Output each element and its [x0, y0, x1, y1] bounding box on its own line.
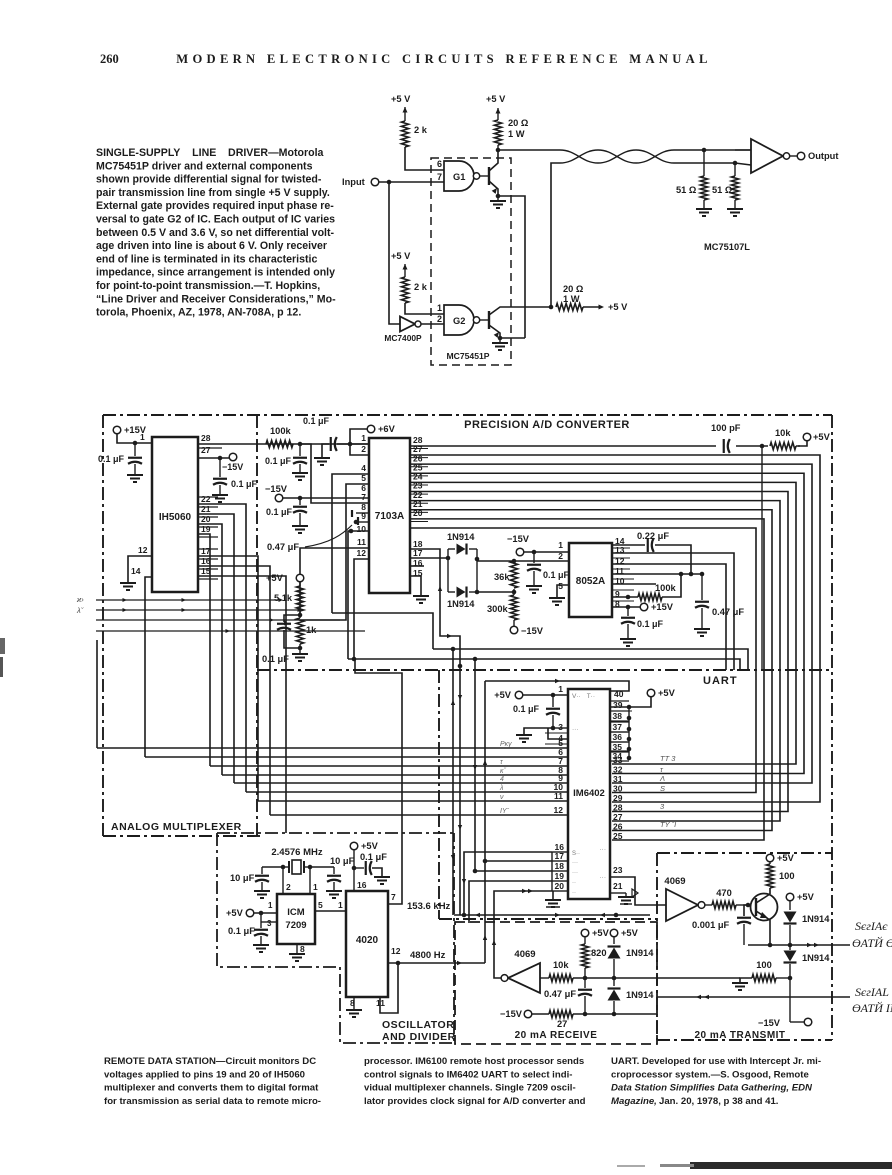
ground cap pin27	[212, 494, 228, 496]
resistor 470	[705, 904, 712, 906]
IC IM6402	[568, 689, 610, 899]
svg-text:−15V: −15V	[758, 1018, 781, 1028]
wire inverter to G2 pin2	[421, 323, 444, 325]
bus wire 7103A pin 26 to UART	[410, 464, 812, 783]
crystal nodes	[281, 865, 286, 870]
+15V terminal 8052A	[612, 606, 640, 608]
pin separators 22-19	[198, 496, 218, 498]
ground 7103A pin15	[410, 576, 421, 595]
node clock	[760, 444, 765, 449]
svg-text:3: 3	[558, 722, 563, 732]
svg-text:30: 30	[613, 784, 623, 794]
svg-text:ӨΑΤЙ IΝ: ӨΑΤЙ IΝ	[852, 1000, 892, 1015]
svg-text:32: 32	[613, 765, 623, 775]
wire 7103A pin28 clock line	[410, 445, 800, 447]
svg-text:28: 28	[201, 433, 211, 443]
svg-text:4069: 4069	[664, 876, 685, 887]
svg-text:SINGLE-SUPPLY LINE DRIVE: SINGLE-SUPPLY LINE DRIVER—Motorola	[96, 147, 324, 159]
svg-text:PRECISION A/D CONVERTER: PRECISION A/D CONVERTER	[464, 419, 630, 431]
svg-text:1: 1	[313, 882, 318, 892]
svg-text:0.1 μF: 0.1 μF	[303, 416, 330, 426]
svg-text:10 μF: 10 μF	[230, 873, 255, 883]
svg-text:3: 3	[267, 919, 272, 928]
wire pin16 bus	[198, 566, 270, 815]
wire 7103A pin18 route	[410, 549, 460, 915]
wire pair bottom to receiver	[735, 163, 751, 165]
+5V terminal diode tx	[786, 893, 794, 901]
svg-text:torola, Phoenix, AZ, 1978, AN-: torola, Phoenix, AZ, 1978, AN-708A, p 12…	[96, 307, 301, 319]
svg-text:37: 37	[613, 722, 623, 732]
svg-text:8052A: 8052A	[576, 576, 605, 587]
capacitor 0.1uF +6V	[330, 437, 332, 451]
svg-text:lator provides clock signal fo: lator provides clock signal for A/D conv…	[364, 1096, 586, 1107]
serial data in line	[657, 996, 850, 998]
wire pin4 route	[332, 474, 369, 613]
svg-text:21: 21	[201, 504, 211, 514]
svg-text:26: 26	[613, 822, 623, 832]
wire bus line to uart pin 8	[222, 774, 568, 776]
wire pin11 to ref	[300, 548, 369, 615]
svg-text:100 pF: 100 pF	[711, 423, 741, 433]
bus wire 7103A pin 23 to UART	[410, 492, 788, 812]
svg-text:··: ··	[572, 880, 576, 886]
bus wire 8052A pin12	[612, 564, 726, 670]
-15V terminal pin27	[229, 453, 237, 461]
svg-text:1N914: 1N914	[802, 953, 830, 963]
svg-text:0.1 μF: 0.1 μF	[265, 456, 292, 466]
dashed border transmit left	[656, 853, 658, 1040]
wire branch down 475	[474, 659, 476, 871]
svg-text:1N914: 1N914	[447, 599, 475, 609]
ground 51ohm right	[734, 200, 736, 208]
dashed box MC75451P	[431, 158, 511, 365]
wire 2k to G2 pin1	[405, 303, 444, 314]
node 51ohm left	[702, 148, 707, 153]
svg-text:7: 7	[361, 492, 366, 502]
svg-text:+5 V: +5 V	[608, 302, 628, 312]
bus wire 7103A pin 24 to UART	[410, 482, 796, 764]
pin separator lines 8052A	[612, 547, 630, 549]
diode 1N914 upper	[448, 548, 455, 550]
svg-text:Data Station Simplifies Data G: Data Station Simplifies Data Gathering, …	[611, 1083, 813, 1094]
svg-text:κˇ: κˇ	[500, 768, 507, 775]
bus wire 8052A pin13	[612, 553, 734, 670]
inverter MC7400P	[400, 317, 415, 332]
wire 2k to G1 pin6	[405, 147, 444, 170]
svg-text:0.1 μF: 0.1 μF	[266, 507, 293, 517]
svg-text:vidual multiplexer channels. S: vidual multiplexer channels. Single 7209…	[364, 1083, 576, 1094]
svg-text:1N914: 1N914	[626, 990, 654, 1000]
resistor 100k	[266, 440, 293, 447]
analog input line 1	[96, 599, 279, 601]
svg-text:470: 470	[716, 888, 732, 898]
wire uart pin20 to receive	[494, 891, 552, 978]
ground Q1 emitter	[496, 194, 501, 199]
svg-text:end of line is terminated in i: end of line is terminated in its charact…	[96, 253, 317, 265]
svg-text:7103A: 7103A	[375, 511, 404, 522]
svg-text:20 Ω: 20 Ω	[508, 118, 529, 128]
wire IH pin28 to 7103A pin1	[198, 443, 369, 445]
ground +6V cap	[322, 444, 329, 457]
node 1k bottom	[298, 646, 303, 651]
svg-text:···: ···	[572, 870, 578, 876]
margin mark 2	[0, 657, 3, 677]
resistor 300k	[513, 589, 515, 595]
svg-text:12: 12	[554, 805, 564, 815]
resistor 5.1k	[299, 582, 301, 586]
node ref	[298, 613, 303, 618]
+5V terminal uart right	[647, 689, 655, 697]
wire crystal to pin2	[282, 867, 284, 894]
wire 7103A pin2	[350, 444, 369, 455]
svg-text:36: 36	[613, 732, 623, 742]
capacitor 0.1uF pin27	[219, 458, 221, 477]
+5V terminal collector	[769, 862, 771, 864]
+5V terminal clock	[796, 441, 807, 446]
ground uart right	[625, 893, 627, 896]
resistor 820	[584, 937, 586, 944]
svg-text:···: ···	[600, 846, 607, 853]
wire uart pin19	[469, 881, 552, 923]
svg-text:1N914: 1N914	[802, 914, 830, 924]
svg-text:−15V: −15V	[507, 534, 530, 544]
svg-text:0.22 μF: 0.22 μF	[637, 531, 669, 541]
svg-text:−15V: −15V	[521, 626, 544, 636]
svg-text:MC75451P driver and external c: MC75451P driver and external components	[96, 160, 313, 172]
svg-text:SєгIΑL: SєгIΑL	[855, 985, 889, 999]
svg-text:processor. IM6100 remote host: processor. IM6100 remote host processor …	[364, 1056, 584, 1067]
ground 51ohm left	[703, 200, 705, 208]
svg-text:V··: V··	[572, 693, 581, 700]
svg-text:IH5060: IH5060	[159, 512, 192, 523]
svg-text:2: 2	[558, 551, 563, 561]
svg-text:“Line Driver and Receiver Cons: “Line Driver and Receiver Considerations…	[96, 293, 336, 305]
wire input to inverter	[389, 182, 400, 324]
svg-text:23: 23	[613, 865, 623, 875]
resistor 20ohm 1W upper	[494, 120, 501, 145]
svg-text:12: 12	[138, 545, 148, 555]
svg-text:0.47 μF: 0.47 μF	[267, 542, 299, 552]
svg-text:+5V: +5V	[266, 573, 284, 583]
svg-text:impedance, since arrangement i: impedance, since arrangement is intended…	[96, 267, 335, 279]
analog input line 2	[96, 609, 298, 611]
svg-text:28: 28	[613, 803, 623, 813]
resistor 51ohm right	[734, 163, 736, 176]
svg-text:0.1 μF: 0.1 μF	[262, 654, 289, 664]
wire +5V to 4020 pin16	[353, 850, 355, 891]
svg-text:20 mA TRANSMIT: 20 mA TRANSMIT	[694, 1030, 785, 1041]
svg-text:0.1 μF: 0.1 μF	[231, 479, 258, 489]
wire pin21 bus	[198, 514, 234, 783]
svg-text:10 μF: 10 μF	[330, 856, 355, 866]
svg-text:−15V: −15V	[222, 462, 243, 472]
wire node to transmit	[614, 977, 740, 979]
wire uart pin25	[611, 845, 613, 847]
svg-text:0.1 μF: 0.1 μF	[637, 619, 664, 629]
wire pin15 stub	[198, 576, 286, 833]
svg-text:shown provide differential sig: shown provide differential signal for tw…	[96, 174, 322, 186]
svg-text:1: 1	[437, 303, 442, 313]
svg-text:···: ···	[600, 874, 607, 881]
wire bus line to uart pin 9	[234, 782, 568, 784]
pin separator lines right	[410, 448, 428, 450]
svg-text:0.1 μF: 0.1 μF	[228, 926, 255, 936]
svg-text:versal to gate G2 of IC. Each: versal to gate G2 of IC. Each output of …	[96, 214, 335, 226]
dashed border transmit top	[657, 852, 832, 854]
transistor Q1	[488, 167, 490, 185]
svg-text:ICM: ICM	[287, 907, 305, 918]
svg-text:5.1k: 5.1k	[274, 593, 293, 603]
svg-text:··: ··	[572, 890, 576, 896]
resistor 10k receive	[540, 977, 549, 979]
wire pin12 ground	[128, 556, 152, 582]
wire crystal to pin1	[309, 867, 311, 894]
svg-text:ΤΥ ˉΙ: ΤΥ ˉΙ	[660, 820, 676, 829]
wire bus line to uart pin 12	[270, 814, 568, 816]
svg-text:Input: Input	[342, 177, 365, 187]
gate G2	[444, 305, 474, 335]
node 100k cap	[298, 442, 303, 447]
resistor 1k	[299, 611, 301, 618]
svg-text:0.1 μF: 0.1 μF	[543, 570, 570, 580]
svg-text:1: 1	[558, 540, 563, 550]
analog input line 3	[96, 619, 340, 621]
svg-text:λ: λ	[499, 785, 504, 792]
ground 1k	[299, 648, 301, 653]
resistor 100 emitter	[752, 974, 776, 981]
svg-text:MC75451P: MC75451P	[447, 351, 490, 361]
wire bus line to uart pin 11	[258, 800, 568, 802]
svg-text:0.1 μF: 0.1 μF	[360, 852, 387, 862]
svg-text:−15V: −15V	[500, 1009, 523, 1019]
ground cap pin1	[127, 474, 143, 476]
-15V terminal 300k	[513, 620, 515, 626]
svg-text:1: 1	[140, 432, 145, 442]
diode rail right	[476, 549, 478, 592]
svg-text:ν: ν	[500, 794, 504, 801]
diode 1N914 receive lower	[613, 978, 615, 986]
wire +15V to pin1	[117, 434, 152, 443]
wire G2 out to Q2 base	[480, 319, 489, 321]
svg-text:G1: G1	[453, 172, 465, 182]
svg-text:+5V: +5V	[621, 928, 639, 938]
resistor 2k lower	[401, 277, 408, 303]
svg-text:20 mA RECEIVE: 20 mA RECEIVE	[515, 1030, 598, 1041]
svg-text:12: 12	[357, 548, 367, 558]
svg-text:7: 7	[391, 892, 396, 902]
+5V terminal uart	[515, 691, 523, 699]
wire serial line arrows	[454, 914, 650, 916]
diode 1N914 lower	[448, 591, 455, 593]
wire RC node down to pin7	[300, 444, 369, 503]
wire diode to -15V	[789, 978, 791, 1022]
svg-text:λˇ: λˇ	[76, 606, 84, 615]
dashed border top	[103, 414, 832, 416]
wire bus line to uart pin 7	[210, 765, 568, 767]
bus wire 7103A pin 19 to UART	[410, 528, 756, 793]
svg-text:260: 260	[100, 52, 119, 66]
gate G1	[444, 161, 474, 191]
output terminal	[790, 155, 797, 157]
svg-text:16: 16	[357, 880, 367, 890]
wire pin8 y613 line	[332, 613, 433, 649]
bus wire 7103A pin 20 to UART	[410, 519, 764, 840]
dashed border receive box	[455, 922, 657, 1044]
svg-text:2 k: 2 k	[414, 125, 428, 135]
svg-text:age driven into line is about: age driven into line is about 6 V. Only …	[96, 240, 327, 252]
svg-text:Magazine,: Magazine,	[611, 1096, 657, 1107]
wire pin20 bus	[198, 524, 222, 775]
svg-text:27: 27	[613, 812, 623, 822]
capacitor 0.1uF ref	[284, 615, 300, 622]
pin separators 17-15	[198, 548, 218, 550]
dashed border mux bottom	[103, 835, 262, 837]
svg-text:ΙΥˉ΢: ΙΥˉ΢	[500, 808, 510, 815]
resistor 36k	[510, 561, 517, 588]
svg-text:G2: G2	[453, 316, 465, 326]
svg-text:SєгIΑє: SєгIΑє	[855, 919, 888, 933]
svg-text:+15V: +15V	[651, 602, 674, 612]
svg-text:2: 2	[361, 444, 366, 454]
wire -15V to pin6	[283, 497, 369, 499]
dashed border uart bottom	[439, 918, 657, 920]
capacitor 100pF	[716, 441, 736, 451]
ground -15V cap	[292, 525, 308, 527]
dashed border right	[831, 415, 833, 1040]
svg-text:5: 5	[318, 900, 323, 910]
capacitor 0.001uF	[744, 905, 748, 916]
diode 1N914 receive upper	[613, 937, 615, 944]
dashed border adc bottom / uart top	[257, 669, 832, 671]
svg-text:153.6 kHz: 153.6 kHz	[407, 901, 451, 912]
ground uart cap	[524, 728, 553, 734]
resistor 100k 8052A	[612, 596, 638, 598]
svg-text:1: 1	[361, 433, 366, 443]
svg-text:7209: 7209	[285, 920, 306, 931]
+5V terminal 4020	[350, 842, 358, 850]
svg-text:4: 4	[361, 463, 366, 473]
svg-text:+5 V: +5 V	[391, 94, 411, 104]
pin bracket lines uart lower	[552, 851, 568, 853]
bus wire mid level 1	[433, 649, 748, 671]
capacitor 10uF right	[310, 866, 334, 868]
resistor 10k clock	[768, 440, 798, 452]
svg-text:2 k: 2 k	[414, 282, 428, 292]
bus wire 7103A pin 25 to UART	[410, 473, 804, 773]
svg-text:1: 1	[558, 684, 563, 694]
svg-text:2.4576 MHz: 2.4576 MHz	[271, 847, 322, 858]
dashed border oscillator box	[217, 832, 454, 834]
svg-text:51 Ω: 51 Ω	[712, 185, 733, 195]
svg-text:20: 20	[201, 514, 211, 524]
svg-text:···: ···	[572, 860, 578, 866]
bus wire 7103A pin 22 to UART	[410, 501, 780, 821]
node 51ohm right	[733, 161, 738, 166]
bus wire mid level 2	[348, 659, 740, 671]
wire bus line to uart pin 5	[97, 747, 568, 749]
svg-text:100k: 100k	[655, 583, 677, 593]
IC 4020	[346, 891, 388, 997]
svg-text:1 W: 1 W	[563, 294, 580, 304]
wire uart pin17 clock	[485, 860, 552, 862]
dashed border uart left	[438, 670, 440, 919]
svg-text:21: 21	[613, 881, 623, 891]
capacitor 0.1uF 8052A	[533, 552, 535, 563]
svg-text:14: 14	[131, 566, 141, 576]
capacitor 0.22uF	[612, 544, 645, 546]
svg-text:−15V: −15V	[265, 484, 288, 494]
transistor Q transmit	[751, 894, 778, 921]
wire collector	[769, 888, 771, 894]
bottom scan bar	[690, 1162, 892, 1169]
wire pin5 route	[300, 484, 369, 620]
capacitor 0.1uF below -15V line	[299, 498, 301, 505]
svg-text:+5V: +5V	[777, 853, 795, 863]
wire collector up to pair bottom	[551, 163, 560, 307]
dashed border mux/adc divider	[256, 415, 258, 836]
wire mid route pin16	[410, 565, 424, 567]
svg-text:22: 22	[201, 494, 211, 504]
pin39 rail	[628, 707, 630, 758]
svg-text:MODERN ELECTRONIC CIRCUITS REF: MODERN ELECTRONIC CIRCUITS REFERENCE MAN…	[176, 52, 711, 66]
svg-text:for transmission as serial dat: for transmission as serial data to remot…	[104, 1096, 321, 1107]
svg-text:1: 1	[338, 900, 343, 910]
IC 7103A	[369, 438, 410, 593]
svg-text:4800 Hz: 4800 Hz	[410, 950, 446, 961]
pin separator 28/27	[198, 447, 222, 449]
analog input line 4	[96, 630, 365, 632]
svg-text:33: 33	[613, 755, 623, 765]
svg-text:4020: 4020	[356, 935, 379, 946]
ground 100	[740, 978, 752, 982]
svg-text:5: 5	[558, 581, 563, 591]
svg-text:+5V: +5V	[494, 690, 512, 700]
wire bus line to uart pin 10	[246, 791, 568, 793]
svg-text:820: 820	[591, 948, 607, 958]
svg-text:1: 1	[268, 901, 273, 910]
node Q2 collector	[549, 305, 554, 310]
inverter 4069 transmit	[666, 889, 698, 921]
wire 8052A pin2	[477, 560, 569, 562]
svg-text:+5V: +5V	[226, 908, 244, 918]
svg-text:ӨΑΤЙ Өυ: ӨΑΤЙ Өυ	[852, 935, 892, 950]
svg-text:Ρκγ: Ρκγ	[500, 741, 512, 748]
ground uart left bottom	[552, 891, 554, 899]
wire clock node down	[761, 446, 763, 671]
transistor Q2	[488, 311, 490, 329]
wire +5V to 7209	[254, 912, 277, 914]
capacitor 0.47uF receive	[584, 978, 586, 988]
IC IH5060	[152, 437, 198, 592]
svg-text:Output: Output	[808, 151, 838, 161]
svg-text:External gate provides require: External gate provides required input ph…	[96, 200, 334, 212]
wire 4800Hz vertical	[484, 681, 486, 963]
svg-text:OSCILLATOR: OSCILLATOR	[382, 1019, 454, 1031]
svg-text:T··: T··	[587, 693, 595, 700]
+6V terminal	[367, 425, 375, 433]
svg-text:4: 4	[500, 776, 504, 783]
capacitor 0.1uF 7209	[260, 922, 262, 928]
svg-text:100k: 100k	[270, 426, 292, 436]
capacitor 0.1uF pin1	[134, 443, 136, 456]
ground Q2 emitter	[498, 336, 503, 341]
svg-text:10k: 10k	[553, 960, 569, 970]
svg-text:1 W: 1 W	[508, 129, 525, 139]
svg-text:29: 29	[613, 793, 623, 803]
capacitor 0.1uF 4020	[354, 867, 364, 869]
+15V terminal	[113, 426, 121, 434]
wire receiver top input	[735, 149, 751, 151]
